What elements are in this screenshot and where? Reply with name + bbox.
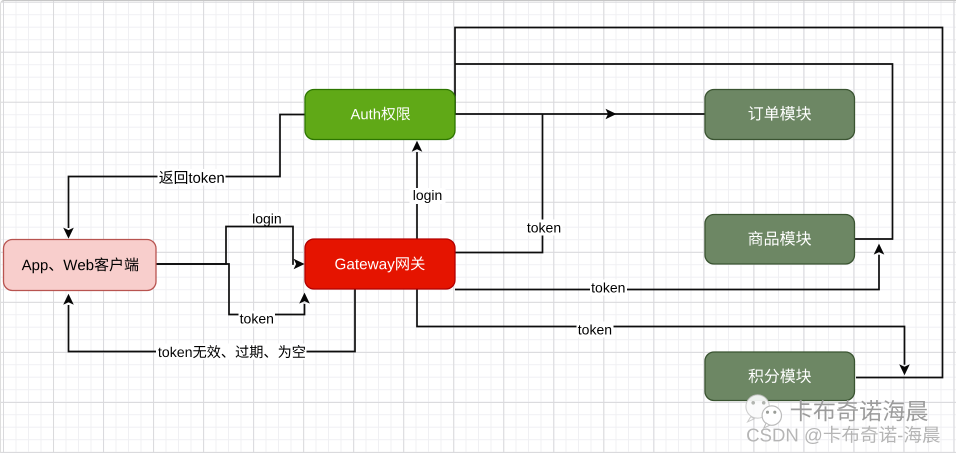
wire label: token (gateway to points wire) xyxy=(577,322,614,338)
svg-text:token: token xyxy=(527,220,561,236)
wire: Auth权限 left to App/Web client top (返回token) xyxy=(69,115,306,229)
svg-text:token: token xyxy=(591,280,625,296)
box: Gateway网关 xyxy=(305,239,455,289)
wire label: 返回token xyxy=(158,169,226,186)
label: 订单模块 xyxy=(749,106,812,121)
wire: client right to Gateway bottom-left (token) xyxy=(156,264,305,315)
wire label: token (client to gateway) xyxy=(239,311,276,327)
wire label: login (gateway to auth) xyxy=(410,188,446,204)
wire: 积分模块 right loop over top to Auth right xyxy=(455,28,943,378)
arrowhead: token down to 积分 junction xyxy=(899,364,910,375)
wire: Gateway bottom to 积分 junction (token) xyxy=(417,290,905,365)
label: App、Web客户端 xyxy=(22,257,139,273)
arrowhead: token up to 商品 junction xyxy=(874,244,885,255)
arrowhead: into Gateway bottom-left xyxy=(299,293,310,304)
wire: client right to Gateway left (login) xyxy=(156,227,294,265)
watermark text: CSDN @卡布奇诺-海晨 xyxy=(747,426,940,444)
arrowhead: into client top xyxy=(63,228,74,239)
wire: Gateway bottom to client bottom (token无效) xyxy=(69,289,356,352)
box: Auth权限 xyxy=(305,90,455,140)
box: App、Web客户端 xyxy=(4,240,157,291)
wire: Gateway right up to order line xyxy=(455,114,543,253)
watermark: WeChat logo small bubble tail xyxy=(764,423,770,428)
arrowhead: into Gateway left xyxy=(294,259,305,270)
wire: Auth right to 订单模块 left xyxy=(455,113,705,115)
watermark: WeChat logo big bubble xyxy=(746,395,769,418)
arrowhead: into Auth bottom xyxy=(412,141,423,152)
arrowhead: mid-line toward 订单模块 xyxy=(606,109,617,120)
arrowhead: into client bottom xyxy=(63,294,74,305)
svg-text:token: token xyxy=(240,311,274,327)
watermark text: 卡布奇诺海晨 xyxy=(791,400,928,421)
watermark: WeChat logo small bubble eyes xyxy=(766,411,769,414)
wire: Gateway bottom-right to 商品 junction (token) xyxy=(455,255,879,290)
watermark: WeChat logo big bubble tail xyxy=(748,417,755,422)
watermark: WeChat logo small bubble xyxy=(762,406,781,425)
box: 商品模块 xyxy=(705,215,855,265)
wire: Gateway top to Auth bottom (login) xyxy=(416,152,418,239)
label: Auth权限 xyxy=(351,107,411,121)
svg-text:login: login xyxy=(413,187,443,203)
wire: 商品模块 right loop to Auth right xyxy=(455,64,893,239)
svg-text:token: token xyxy=(578,322,612,338)
box: 订单模块 xyxy=(705,90,855,140)
watermark: WeChat logo big bubble eyes xyxy=(751,401,755,405)
wire label: login (client to gateway) xyxy=(249,212,285,226)
label: 积分模块 xyxy=(749,369,812,384)
box: 积分模块 xyxy=(705,352,855,401)
wire label: token (gateway to order wire) xyxy=(526,220,563,236)
label: 商品模块 xyxy=(749,231,812,246)
label: Gateway网关 xyxy=(335,256,425,272)
svg-text:login: login xyxy=(252,210,282,226)
wire label: token (gateway to goods wire) xyxy=(590,280,627,296)
wire label: token无效、过期、为空 xyxy=(156,344,307,360)
